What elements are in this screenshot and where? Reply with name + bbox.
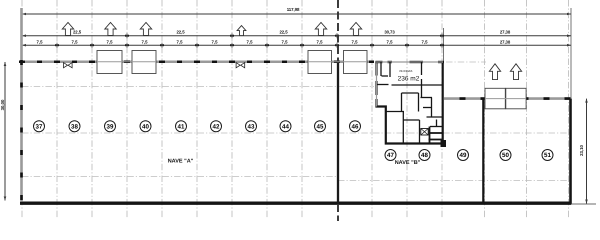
svg-text:7,5: 7,5 xyxy=(72,40,79,45)
svg-text:49: 49 xyxy=(460,152,467,159)
svg-text:7,5: 7,5 xyxy=(177,40,184,45)
svg-text:236 m2: 236 m2 xyxy=(398,76,420,83)
svg-text:47: 47 xyxy=(387,152,394,159)
svg-text:OFICINAS: OFICINAS xyxy=(399,69,412,73)
svg-text:46: 46 xyxy=(352,123,359,130)
svg-text:NAVE "B": NAVE "B" xyxy=(395,160,421,166)
svg-text:22,5: 22,5 xyxy=(73,30,82,35)
svg-text:117,98: 117,98 xyxy=(287,7,300,12)
svg-text:50: 50 xyxy=(502,152,509,159)
svg-text:22,5: 22,5 xyxy=(177,30,186,35)
svg-text:27,38: 27,38 xyxy=(500,30,511,35)
svg-text:37: 37 xyxy=(36,123,43,130)
svg-text:7,5: 7,5 xyxy=(107,40,114,45)
svg-text:30,73: 30,73 xyxy=(384,30,395,35)
svg-text:42: 42 xyxy=(213,123,220,130)
svg-text:7,5: 7,5 xyxy=(247,40,254,45)
svg-text:51: 51 xyxy=(544,152,551,159)
svg-text:43: 43 xyxy=(248,123,255,130)
svg-text:NAVE "A": NAVE "A" xyxy=(168,158,194,164)
svg-text:41: 41 xyxy=(178,123,185,130)
svg-text:7,5: 7,5 xyxy=(142,40,149,45)
svg-text:7,5: 7,5 xyxy=(387,40,394,45)
svg-text:30,00: 30,00 xyxy=(0,99,5,110)
svg-text:7,5: 7,5 xyxy=(37,40,44,45)
svg-text:22,5: 22,5 xyxy=(280,30,289,35)
svg-text:7,5: 7,5 xyxy=(282,40,289,45)
svg-text:23,10: 23,10 xyxy=(579,145,584,156)
svg-text:27,38: 27,38 xyxy=(500,40,511,45)
svg-text:7,5: 7,5 xyxy=(212,40,219,45)
svg-text:7,5: 7,5 xyxy=(317,40,324,45)
svg-text:38: 38 xyxy=(71,123,78,130)
svg-text:39: 39 xyxy=(107,123,114,130)
svg-text:48: 48 xyxy=(421,152,428,159)
svg-text:7,5: 7,5 xyxy=(352,40,359,45)
svg-text:45: 45 xyxy=(317,123,324,130)
svg-text:44: 44 xyxy=(282,123,289,130)
svg-text:7,5: 7,5 xyxy=(422,40,429,45)
svg-text:40: 40 xyxy=(142,123,149,130)
